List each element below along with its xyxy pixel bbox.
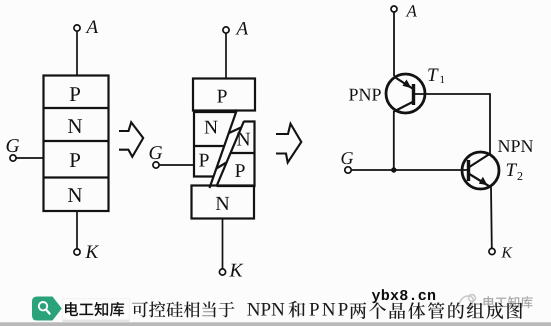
wire bottom N to K (middle) bbox=[222, 219, 224, 270]
layer label P1 (left) bbox=[70, 87, 80, 101]
bottom gray border band bbox=[0, 322, 551, 326]
transistor Q1 PNP (T1) bbox=[386, 74, 425, 113]
junction dot (T1 collector / G / T2 base node) bbox=[391, 167, 396, 172]
transform arrow 2 (middle to right) bbox=[276, 124, 301, 163]
diagonal split line left (middle) bbox=[210, 110, 238, 189]
wire stack to K (left) bbox=[76, 211, 78, 249]
P region top (middle) bbox=[193, 79, 255, 111]
node K (middle structure cathode terminal) bbox=[219, 264, 243, 277]
P region lower-left gate layer (middle) bbox=[199, 154, 209, 167]
N region bottom (middle) bbox=[192, 186, 255, 219]
node K (circuit cathode terminal) bbox=[489, 247, 513, 257]
gate node G (circuit) bbox=[341, 152, 353, 173]
transistor Q2 NPN (T2) bbox=[462, 152, 499, 189]
wire T2 emitter to K bbox=[490, 187, 493, 248]
watermark ybx8.cn bbox=[372, 292, 380, 303]
label T2 bbox=[507, 164, 523, 180]
wire G to lower-left P region (middle) bbox=[159, 164, 194, 166]
watermark badge green tag bbox=[32, 297, 62, 321]
transform arrow 1 (left to middle) bbox=[119, 122, 143, 157]
gate node G (left) bbox=[7, 139, 20, 161]
badge label card bbox=[63, 299, 130, 322]
wire A to T1 emitter bbox=[393, 12, 395, 76]
node A (left structure anode terminal) bbox=[74, 20, 98, 33]
node A (circuit anode terminal) bbox=[391, 5, 417, 16]
wire T1 collector down to gate node bbox=[393, 111, 395, 170]
node K (left structure cathode terminal) bbox=[74, 246, 99, 258]
P region lower-right (middle) bbox=[235, 164, 245, 177]
magnifier icon bbox=[39, 302, 50, 314]
caption text 可控硅相当于 NPN 和 PNP 两个晶体管的组成图 bbox=[132, 302, 148, 318]
N region upper-right (middle) bbox=[217, 122, 255, 187]
label T1 bbox=[428, 69, 444, 83]
layer label N2 (left) bbox=[68, 188, 82, 202]
junction rung lower (middle) bbox=[216, 163, 226, 169]
N region upper-left (middle) bbox=[194, 112, 236, 177]
diagonal split line right (middle) bbox=[217, 121, 245, 186]
wire A to top P region (middle) bbox=[225, 33, 227, 78]
layer label N1 (left) bbox=[68, 119, 82, 133]
watermark text 电工知库 (gray) bbox=[484, 296, 495, 308]
gate node G (middle) bbox=[150, 146, 163, 168]
label PNP (T1) bbox=[349, 89, 358, 101]
junction rung upper (middle) bbox=[229, 128, 241, 134]
wire G to T2 base bbox=[351, 169, 468, 171]
four-layer stack outline (left PNPN) bbox=[44, 76, 109, 212]
badge text 电工知库 bbox=[65, 302, 78, 316]
label NPN (T2) bbox=[498, 140, 510, 152]
watermark logo mark (faint) bbox=[459, 295, 475, 308]
layer label P2 (left) bbox=[70, 153, 80, 167]
wire T1 base to T2 collector bbox=[415, 94, 490, 155]
node A (middle structure anode terminal) bbox=[223, 22, 248, 35]
wire G to stack (left) bbox=[16, 157, 43, 159]
wire A to stack (left) bbox=[76, 31, 78, 75]
